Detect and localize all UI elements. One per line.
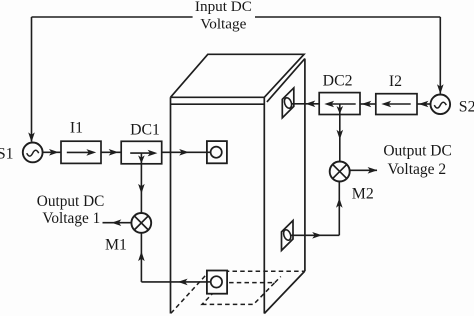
wire J3 to DC2 <box>291 103 319 105</box>
chamber box right-face bottom edge <box>264 271 305 314</box>
wire S1 to I1 <box>43 151 61 153</box>
svg-text:Input DC: Input DC <box>195 0 252 15</box>
svg-text:Voltage 1: Voltage 1 <box>42 210 100 227</box>
wire DC1 to connector J1 <box>162 151 211 153</box>
meter I2 <box>376 94 417 115</box>
wire DC1 down to M1 <box>140 153 142 213</box>
svg-text:S2: S2 <box>459 98 474 115</box>
source S1 <box>23 143 43 163</box>
wire M1 down <box>140 233 142 282</box>
wire top rail left segment <box>32 16 193 18</box>
svg-text:Output DC: Output DC <box>37 193 105 210</box>
chamber box back-right vertical edge <box>304 59 306 271</box>
chamber box top face <box>171 54 305 97</box>
arrow M2 to Output DC Voltage 2 label <box>350 169 377 171</box>
node Output DC Voltage 1 label <box>37 193 105 227</box>
wire I2 to DC2 <box>360 103 376 105</box>
meter M2 <box>330 162 350 182</box>
dashed base plate inside box <box>202 283 275 305</box>
meter I1 <box>61 141 101 163</box>
svg-text:I2: I2 <box>389 73 402 90</box>
connector J3 right face upper <box>282 88 294 118</box>
chamber box front face <box>171 97 265 313</box>
arrow M1 to Output DC Voltage 1 label <box>103 222 132 224</box>
wire J4 up to M2 <box>338 182 340 236</box>
svg-text:M1: M1 <box>105 237 127 254</box>
chamber box front lid line <box>171 103 265 105</box>
node Input DC Voltage label <box>195 0 252 32</box>
meter M1 <box>131 213 151 233</box>
node Output DC Voltage 2 label <box>383 142 451 178</box>
chamber box right lid line <box>267 59 305 102</box>
converter DC1 <box>121 141 162 164</box>
connector J1 front face top <box>207 141 227 163</box>
wire top rail right segment <box>255 16 440 18</box>
svg-text:Voltage 2: Voltage 2 <box>387 161 446 178</box>
wire S2 to I2 <box>417 103 431 105</box>
source S2 <box>431 95 451 115</box>
svg-text:I1: I1 <box>70 120 83 137</box>
chamber box dashed back-bottom hidden edge <box>209 270 304 272</box>
svg-text:DC1: DC1 <box>130 122 160 139</box>
connector J4 right face lower <box>282 221 294 251</box>
wire bottom horizontal to J2 <box>141 281 211 283</box>
svg-text:M2: M2 <box>352 186 374 203</box>
wire J4 horizontal <box>291 234 340 236</box>
svg-text:S1: S1 <box>0 145 14 162</box>
dashed plate corner tail <box>275 277 281 283</box>
chamber box dashed bottom-left hidden edge <box>171 271 210 313</box>
wire right drop to S2 <box>439 17 441 94</box>
converter DC2 <box>319 93 360 115</box>
connector J2 front face bottom <box>207 271 227 294</box>
svg-text:Output DC: Output DC <box>383 142 451 159</box>
svg-text:DC2: DC2 <box>323 72 353 89</box>
wire DC2 down to M2 <box>339 104 341 161</box>
wire I1 to DC1 <box>101 151 121 153</box>
wire left drop to S1 <box>31 17 33 142</box>
svg-text:Voltage: Voltage <box>200 15 246 32</box>
